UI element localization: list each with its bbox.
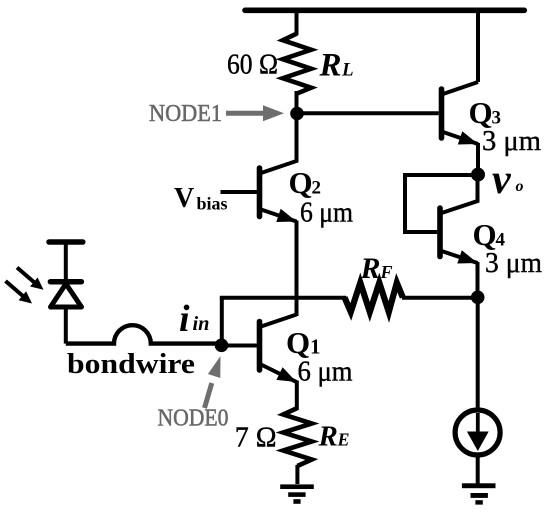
light arrow 2 xyxy=(6,281,24,297)
light arrow 1 xyxy=(17,268,35,284)
node NODE0 dot xyxy=(215,339,229,353)
node (RF / Q4 emitter / current source) dot xyxy=(471,291,485,305)
bondwire with arc xyxy=(66,325,222,343)
ground (right) xyxy=(462,483,496,504)
node NODE1 dot xyxy=(290,107,304,121)
resistor RE xyxy=(283,408,312,466)
wire RF to output node xyxy=(402,296,478,300)
svg-text:6 μm: 6 μm xyxy=(300,198,353,229)
svg-text:V: V xyxy=(174,183,194,214)
wire RE to ground xyxy=(295,465,299,484)
wire NODE1 down to Q2 collector xyxy=(295,114,299,163)
photodiode D1 xyxy=(50,282,81,307)
svg-text:v: v xyxy=(492,157,512,203)
wire Q3 emitter to vo xyxy=(476,143,480,175)
svg-text:60 Ω: 60 Ω xyxy=(227,50,278,81)
current source I1 xyxy=(455,410,500,455)
svg-text:3 μm: 3 μm xyxy=(482,126,541,157)
svg-text:R: R xyxy=(318,421,338,453)
wire Q4 emitter down to node xyxy=(476,262,480,298)
NODE0 gray arrow xyxy=(205,383,212,408)
svg-text:i: i xyxy=(179,298,190,340)
ground (left) xyxy=(280,484,314,503)
svg-text:bias: bias xyxy=(197,194,228,214)
resistor RL xyxy=(283,34,311,94)
svg-text:in: in xyxy=(193,313,210,335)
svg-text:R: R xyxy=(319,48,342,84)
Q2 base wire xyxy=(221,190,258,194)
Q1 base wire xyxy=(222,344,258,348)
svg-text:F: F xyxy=(380,262,393,282)
svg-text:2: 2 xyxy=(312,178,322,199)
NODE1 gray arrow xyxy=(226,111,266,116)
svg-text:L: L xyxy=(341,60,354,81)
node vo dot xyxy=(471,168,485,182)
svg-text:Q: Q xyxy=(473,217,497,252)
wire RL to NODE1 xyxy=(295,91,299,113)
transistor Q2 xyxy=(260,113,297,222)
svg-text:Q: Q xyxy=(469,95,493,130)
svg-text:3 μm: 3 μm xyxy=(485,248,542,279)
wire terminal to diode xyxy=(64,244,68,280)
wire feedback row left segment xyxy=(220,296,346,300)
svg-text:NODE0: NODE0 xyxy=(158,406,229,432)
wire current source to ground xyxy=(476,456,480,484)
wire rail down to Q3 collector xyxy=(476,10,480,82)
svg-text:E: E xyxy=(337,430,350,450)
wire rail to RL xyxy=(295,10,299,35)
Q4 diode-connect loop wire xyxy=(405,175,478,232)
svg-text:bondwire: bondwire xyxy=(67,348,195,380)
transistor Q4 xyxy=(440,175,478,264)
svg-text:1: 1 xyxy=(310,335,321,359)
svg-text:7 Ω: 7 Ω xyxy=(235,423,277,454)
wire diode down xyxy=(64,306,68,344)
transistor Q1 xyxy=(260,315,297,383)
power rail xyxy=(245,8,524,14)
svg-text:o: o xyxy=(516,178,524,195)
wire NODE1 to Q3 base xyxy=(297,111,439,115)
wire Q1 emitter to RE xyxy=(295,381,299,411)
svg-text:Q: Q xyxy=(289,165,313,200)
wire NODE0 up to feedback row xyxy=(220,298,224,346)
transistor Q3 xyxy=(442,82,479,145)
svg-text:6 μm: 6 μm xyxy=(298,357,353,388)
svg-text:NODE1: NODE1 xyxy=(149,101,222,127)
wire node down to current source xyxy=(476,297,480,411)
resistor RF xyxy=(345,283,403,312)
svg-text:R: R xyxy=(360,252,381,285)
photodiode top terminal bar xyxy=(49,239,83,245)
wire Q2 emitter down to Q1 collector xyxy=(295,221,299,317)
svg-text:Q: Q xyxy=(286,325,310,360)
